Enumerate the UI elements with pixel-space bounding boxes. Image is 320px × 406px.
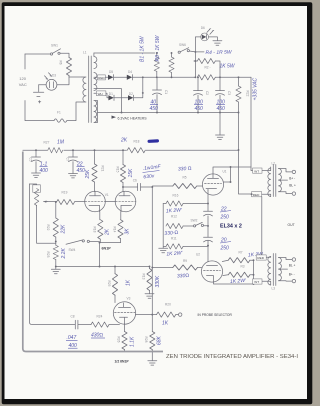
wire: D3 leads [39,77,69,85]
svg-text:R13: R13 [142,274,146,280]
blue value 22/250 [220,207,232,221]
wire: R24 to V3 grid [109,324,120,326]
svg-text:1K 5W: 1K 5W [220,64,236,70]
svg-text:250: 250 [220,215,230,221]
wire: node down to lower rail [194,52,195,77]
wire: mains left side down (input stubs) [25,54,54,121]
svg-text:68K: 68K [157,335,163,345]
svg-text:C3: C3 [227,91,231,95]
B+ sub rail [23,149,239,151]
heater label with arrow [112,116,117,119]
coupling capacitor C8 [75,320,91,329]
svg-text:R7: R7 [239,250,243,254]
blue value 100/450 [194,100,203,112]
input line from pot to C8 [30,184,75,325]
wire: pot wiper to R19 [47,201,57,203]
resistor R0 vertical [169,53,174,77]
svg-text:C2: C2 [205,91,209,95]
shield bus thick gray line [23,152,163,352]
wire: SW6 node right stub and LED branch [195,37,204,52]
pentode U1 (EL34) [202,174,223,195]
svg-text:B+ -: B+ - [289,272,295,276]
svg-text:R2 -: R2 - [205,66,211,70]
svg-text:1K 2W′: 1K 2W′ [166,207,183,214]
L2 secondary leads to terminals [279,169,293,194]
svg-text:R18: R18 [93,227,97,233]
svg-text:2K: 2K [120,138,128,144]
node C5 on B+ sub rail [35,149,37,151]
resistor R22 (B+ dropper) vertical [236,77,241,112]
node R1 top on HV wire [156,52,158,54]
svg-text:R23: R23 [46,252,50,258]
node B+ dropper on rail [238,112,240,114]
capacitor C1 [153,77,162,112]
svg-text:25K: 25K [85,169,91,180]
svg-text:R20: R20 [165,303,171,307]
L1 HV secondary winding [94,53,97,69]
fuse F1 [54,119,67,122]
svg-text:R11: R11 [171,237,177,241]
resistor R15 (V1b plate load) vertical [120,150,125,191]
L2 secondary winding [279,169,282,192]
svg-text:400: 400 [69,343,78,349]
svg-text:1K 2W′: 1K 2W′ [230,278,247,285]
L2 core [273,165,276,197]
svg-text:C5: C5 [29,158,33,162]
svg-text:D3: D3 [52,74,56,78]
ground stub from rail [219,113,221,136]
resistor R22v (grid leak) vertical [53,202,58,245]
wire: D2 out up to junction [134,77,143,98]
WH tap box [97,91,106,96]
output terminal (lower top) [292,258,295,261]
switch SW6 [178,48,195,54]
node C2 on ground rail [197,112,199,114]
wire: HV top tap to R1 top rail [94,52,155,54]
svg-text:R0 - 1K 5W: R0 - 1K 5W [155,34,161,61]
ground (cathode resistors) [159,248,168,252]
resistor R18 (V1a cathode) vertical [98,212,103,243]
wire: LED cathode to ground [209,37,218,41]
AC neutral symbol [33,85,43,103]
svg-text:1.1K: 1.1K [130,336,136,347]
B+ vertical A down to L2 RED [239,113,252,195]
wire: U1 plate up and right to B+ [213,167,251,174]
resistor R11 [166,244,208,249]
svg-text:450: 450 [150,106,159,112]
node R21 on B+ sub rail [94,149,96,151]
output terminal (upper top) [292,170,295,173]
diode D1 [108,95,114,100]
svg-text:1K: 1K [126,279,132,286]
svg-text:R19: R19 [62,191,68,195]
resistor R1 vertical [154,53,159,77]
svg-text:RED: RED [253,193,260,197]
output terminal (upper bottom) [292,192,295,195]
resistor R27 inline on rail [48,147,64,154]
node C7 on B+ sub rail [72,149,74,151]
capacitor (20/250) [204,237,213,242]
svg-text:C8: C8 [71,315,75,319]
resistor R21 (V1a plate load) vertical [92,150,97,191]
L1 primary winding [82,77,86,102]
svg-text:D2: D2 [129,92,133,96]
node C1 on ground rail [156,112,158,114]
resistor R14 (V1b cathode) vertical [118,212,123,243]
ground (R13) [145,294,154,298]
ground (R23) [51,267,60,274]
svg-text:R6: R6 [59,61,63,65]
RED box L3 [256,255,271,260]
wire: grid tie between triodes [105,200,115,202]
capacitor C2 [194,77,203,112]
svg-text:+335 VAC: +335 VAC [253,77,259,100]
output terminal (lower bottom) [292,279,295,282]
resistor R3 horizontal (lower of pair, inline) [197,75,215,80]
common row wire [56,266,150,268]
WT box L2 [253,168,271,173]
svg-text:WH: WH [98,92,103,96]
svg-text:R24: R24 [97,315,103,319]
svg-text:C7: C7 [66,158,70,162]
svg-text:R16: R16 [173,194,179,198]
wire: U2 bottom to WT node [214,282,254,284]
svg-text:R22: R22 [246,91,250,97]
svg-text:WT: WT [254,169,259,173]
resistor R16 [163,201,208,206]
svg-text:EL34 x 2: EL34 x 2 [220,224,242,230]
svg-text:R4 - 1R 5W: R4 - 1R 5W [205,50,232,56]
svg-text:400: 400 [40,168,49,174]
diode D4 [127,75,133,80]
svg-text:SW4: SW4 [69,248,76,252]
svg-text:2K: 2K [105,228,111,236]
svg-text:R25: R25 [107,281,111,287]
triode V1b [115,191,136,212]
L3 core [273,254,276,286]
svg-text:R14: R14 [113,227,117,233]
wire: WH tap jog to D1 [106,93,109,98]
blue value 22/450 [76,162,85,174]
grid feed line vertical [151,187,153,315]
resistor R24 (grid stopper) [91,322,109,327]
wire: red tap to D5 [105,76,108,78]
blue note .1w 1mF / 630v underlined [143,164,162,181]
capacitor C7 [69,150,78,173]
blue value 20/250 [220,238,232,252]
svg-text:430Ω: 430Ω [91,333,103,339]
svg-text:1M: 1M [57,140,65,146]
svg-text:V3: V3 [127,297,131,301]
wire: mains top from left corner to SW1 [25,53,50,55]
svg-text:VAC: VAC [19,82,27,87]
resistor R6 (series dropper) vertical [66,58,71,76]
node heater tap on rail [121,112,123,114]
wire: RED L2 down to RED L3 [261,197,263,255]
resistor R26 vertical [122,332,127,352]
svg-text:630v: 630v [143,173,155,180]
wire: D4 out to node and R1 bottom rail [133,76,194,78]
resistor R20 (input select) [152,312,178,317]
svg-text:330 Ω: 330 Ω [178,166,192,173]
resistor R5 (U1 grid stopper) [152,183,202,188]
svg-text:R18: R18 [134,140,140,144]
WT box L3 [253,279,271,285]
svg-text:R15: R15 [116,167,120,173]
svg-text:C6: C6 [133,179,137,183]
svg-text:250: 250 [220,246,230,252]
wire: pot bottom to SW4 node [37,206,56,244]
wire: V3 cathode to R26 [124,324,126,332]
wire: heater tap upper [94,89,122,113]
svg-text:L1: L1 [83,51,87,55]
wire: R6 bottom to transformer primary top [69,76,82,78]
resistor R23 vertical [53,245,58,266]
node after SW6 [194,51,196,53]
svg-text:450: 450 [217,106,226,112]
svg-text:330Ω: 330Ω [177,273,190,280]
wire: U1 g2 strap [223,167,230,182]
svg-text:RED: RED [98,76,105,80]
node V1b plate [122,186,124,188]
blue value 40/450 [150,100,159,112]
resistor R13 vertical to ground [147,267,152,294]
node D2 output junction [142,92,144,94]
svg-text:BL +: BL + [289,264,296,268]
svg-text:U1: U1 [223,170,227,174]
ground (rail) [216,135,225,139]
wire: B+ rail to right [215,76,251,78]
resistor R2 horizontal (upper of pair) [194,58,220,77]
L1 core [89,56,92,123]
input terminal [179,313,182,316]
heater/ground rail [98,112,239,114]
svg-text:6N1P: 6N1P [102,246,112,250]
svg-text:WT: WT [254,280,259,284]
wire: cathode bias row under V1 [100,242,121,244]
resistor R28 vertical [150,315,155,361]
neon lamp D3 [45,73,57,90]
pentode U2 (EL34) [201,261,222,282]
svg-text:22K: 22K [61,224,67,235]
svg-text:B+ -: B+ - [289,177,295,181]
resistor R25 vertical to V3 [112,267,117,303]
svg-text:V1: V1 [105,193,109,197]
node R22 tap on B+ wire [238,76,240,78]
L3 secondary leads to terminals [279,258,293,282]
svg-text:450: 450 [195,106,204,112]
resistor R7 [222,258,253,284]
svg-text:ZEN TRIODE INTEGRATED AMPLIFIE: ZEN TRIODE INTEGRATED AMPLIFIER - SE34-I [166,354,298,360]
triode V1a [85,191,106,212]
svg-text:D6: D6 [201,26,205,30]
svg-text:15K: 15K [128,168,134,178]
cathode chain vertical [207,191,209,262]
svg-text:SW2: SW2 [191,218,198,222]
svg-text:B1 - 1K 5W: B1 - 1K 5W [140,35,146,62]
svg-text:2.2K: 2.2K [61,248,67,260]
LED D6 [201,29,214,41]
svg-text:L3: L3 [272,287,276,291]
L3 primary winding [268,257,271,286]
svg-text:R26: R26 [117,337,121,343]
RED box L2 [252,192,271,197]
svg-text:R12: R12 [171,215,177,219]
svg-text:.047: .047 [67,335,77,341]
svg-text:1/2 6N1P: 1/2 6N1P [115,359,130,363]
wire: fuse to primary bottom [67,102,82,121]
node C3 on ground rail [219,112,221,114]
svg-text:R28: R28 [144,337,148,343]
svg-text:450: 450 [77,168,86,174]
resistor R18h inline on rail [127,147,146,154]
svg-text:R5: R5 [183,176,187,180]
svg-text:D1: D1 [109,92,113,96]
svg-text:330K: 330K [155,275,161,287]
node R15 on B+ sub rail [122,149,124,151]
ground (R28) [148,361,157,365]
ground (LED) [213,41,222,45]
switch SW4 [66,240,100,244]
svg-text:R9: R9 [183,259,187,263]
svg-text:1K: 1K [162,321,169,327]
svg-text:C1: C1 [164,90,168,94]
L1 mid secondary winding [94,73,98,94]
blue value 100/450 [216,100,225,112]
wire: V3 plate out [135,314,152,316]
wire: pot top to input line [30,183,37,186]
diode D5 [108,75,114,80]
node C3 tap on B+ wire [219,76,221,78]
L3 secondary winding [279,258,282,281]
coupling capacitor C6 [123,183,152,190]
svg-text:D5: D5 [109,70,113,74]
B+ vertical B down to L2 WT [251,77,253,170]
potentiometer P1 [33,185,48,206]
L2 primary winding [268,167,271,197]
diode D2 [128,95,134,100]
svg-text:D4: D4 [128,70,132,74]
svg-text:RED: RED [257,256,264,260]
resistor R3 [223,272,254,277]
wire: bias node down to common row [99,243,101,267]
svg-text:OUT: OUT [288,223,295,227]
switch SW1 [50,49,69,58]
L1 heater winding [94,101,98,123]
chain left vertical to ground [163,204,166,249]
triode V3 [113,302,135,324]
svg-text:SW6: SW6 [179,43,186,47]
svg-text:1K 2W′: 1K 2W′ [166,250,183,257]
wire: D1 to D2 [114,97,128,99]
svg-text:120: 120 [19,76,26,81]
svg-text:IN PROBE SELECTOR: IN PROBE SELECTOR [198,313,233,317]
wire: R19 to V1a grid [75,201,86,203]
wire: D5 to D4 [114,76,127,78]
svg-text:SW1: SW1 [51,44,58,48]
resistor R12 [166,223,194,228]
node: rectifier output junction [142,76,144,78]
blue value .047/400 underlined [66,335,78,349]
blue scribble [147,139,159,143]
svg-text:R22: R22 [46,225,50,231]
RED tap box [97,75,105,80]
capacitor (cathode bypass 22/250) [204,211,213,216]
blue value 1-1/400 [40,162,49,174]
svg-text:3K: 3K [125,228,131,235]
resistor R19 [57,199,75,204]
svg-text:6.3VAC HEATERS: 6.3VAC HEATERS [118,116,148,120]
svg-text:R27: R27 [44,141,50,145]
svg-text:R3: R3 [241,265,245,269]
resistor R9 (U2 grid stopper) [152,265,201,270]
svg-text:F1: F1 [57,111,61,115]
capacitor C3 [216,77,225,112]
switch SW2 [194,222,209,227]
capacitor C5 [32,150,41,173]
svg-text:BL +: BL + [289,183,296,187]
svg-text:R21: R21 [101,166,105,172]
svg-text:U2: U2 [196,253,200,257]
